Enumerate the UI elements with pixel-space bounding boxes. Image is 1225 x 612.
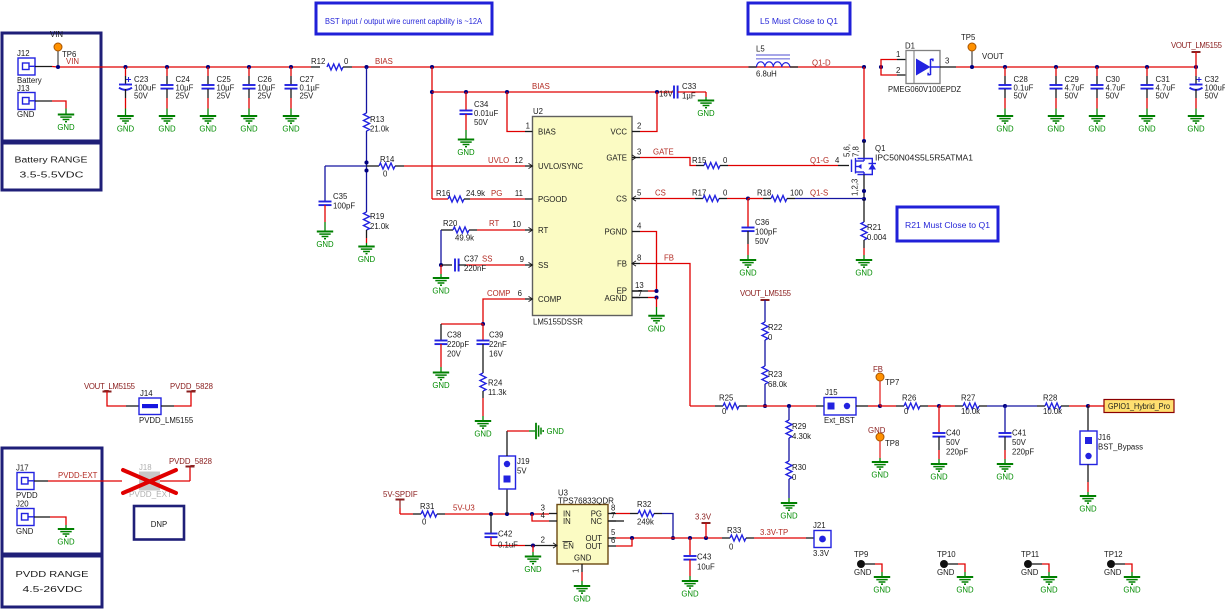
ground at C40 bbox=[930, 464, 948, 482]
svg-text:7,8: 7,8 bbox=[852, 146, 861, 157]
ground at R19 bbox=[358, 247, 376, 265]
ground at C31 bbox=[1138, 116, 1156, 134]
svg-text:C34: C34 bbox=[474, 100, 489, 109]
svg-text:R20: R20 bbox=[443, 219, 458, 228]
svg-text:J19: J19 bbox=[517, 457, 530, 466]
svg-text:5V: 5V bbox=[517, 467, 527, 476]
ground at R21 bbox=[855, 260, 873, 278]
svg-text:GND: GND bbox=[780, 512, 798, 521]
svg-text:GND: GND bbox=[873, 586, 891, 595]
svg-text:GND: GND bbox=[855, 269, 873, 278]
svg-text:PGOOD: PGOOD bbox=[538, 195, 567, 204]
svg-text:D1: D1 bbox=[905, 42, 915, 51]
svg-text:GND: GND bbox=[240, 125, 258, 134]
svg-text:10.0k: 10.0k bbox=[961, 407, 980, 416]
capacitor C33 bbox=[659, 82, 706, 101]
wire J12 to VIN rail bbox=[35, 66, 58, 69]
note BST wire current capability bbox=[316, 3, 492, 34]
svg-text:GATE: GATE bbox=[606, 154, 627, 163]
wire R19 to ground bbox=[366, 230, 368, 246]
svg-text:GND: GND bbox=[937, 568, 955, 577]
resistor R21 bbox=[861, 199, 887, 242]
svg-text:50V: 50V bbox=[946, 438, 961, 447]
svg-text:1: 1 bbox=[572, 569, 581, 573]
svg-text:VCC: VCC bbox=[611, 128, 628, 137]
capacitor C39 bbox=[477, 324, 508, 373]
battery input enclosure box bbox=[2, 33, 101, 141]
svg-text:16V: 16V bbox=[489, 350, 504, 359]
wire NC stub bbox=[608, 520, 624, 522]
svg-text:R28: R28 bbox=[1043, 394, 1057, 403]
wire EN node bbox=[525, 543, 549, 556]
svg-text:0: 0 bbox=[383, 170, 388, 179]
svg-text:PVDD_5828: PVDD_5828 bbox=[170, 382, 213, 391]
net flag GPIO1_Hybrid_Pro bbox=[1086, 400, 1174, 413]
wire J15 to TP7 node bbox=[856, 404, 896, 408]
transistor Q1 IPC50N04S5L5R5ATMA1 bbox=[835, 144, 973, 196]
svg-text:Ext_BST: Ext_BST bbox=[824, 416, 855, 425]
capacitor C29 bbox=[1050, 67, 1085, 116]
resistor R18 bbox=[746, 189, 804, 202]
power flag 3.3V bbox=[695, 513, 712, 539]
svg-text:R27: R27 bbox=[961, 394, 975, 403]
testpoint TP5 VOUT bbox=[961, 33, 1004, 67]
ground at AGND bbox=[648, 316, 666, 334]
resistor R29 bbox=[786, 406, 811, 441]
svg-text:0: 0 bbox=[723, 156, 728, 165]
ground at C25 bbox=[199, 116, 217, 134]
wire R22 to R23 bbox=[764, 340, 766, 366]
svg-text:6: 6 bbox=[611, 536, 615, 545]
svg-text:25V: 25V bbox=[217, 92, 232, 101]
svg-text:50V: 50V bbox=[474, 118, 489, 127]
svg-text:GND: GND bbox=[474, 430, 492, 439]
svg-text:R21 Must Close to Q1: R21 Must Close to Q1 bbox=[905, 221, 990, 230]
power flag PVDD_5828 at J18 bbox=[169, 457, 212, 481]
ground at C35 bbox=[316, 232, 334, 250]
svg-text:C41: C41 bbox=[1012, 429, 1026, 438]
svg-text:FB: FB bbox=[617, 260, 627, 269]
svg-text:4: 4 bbox=[637, 222, 642, 231]
svg-text:GND: GND bbox=[648, 324, 666, 333]
resistor R17 bbox=[692, 189, 748, 202]
svg-text:TPS76833QDR: TPS76833QDR bbox=[558, 497, 614, 506]
svg-text:Q1-G: Q1-G bbox=[810, 156, 829, 165]
resistor R15 bbox=[692, 156, 728, 169]
svg-text:8: 8 bbox=[637, 254, 641, 263]
svg-text:LM5155DSSR: LM5155DSSR bbox=[533, 318, 583, 327]
DNP note box bbox=[134, 506, 184, 540]
svg-text:GND: GND bbox=[956, 586, 974, 595]
wire R25 to J15 bbox=[765, 404, 824, 408]
svg-text:220nF: 220nF bbox=[464, 264, 486, 273]
svg-text:CS: CS bbox=[616, 195, 627, 204]
svg-text:PG: PG bbox=[491, 189, 502, 198]
svg-text:1: 1 bbox=[896, 50, 900, 59]
svg-text:VIN: VIN bbox=[50, 30, 63, 39]
svg-text:R25: R25 bbox=[719, 394, 734, 403]
ground at R30 bbox=[780, 503, 798, 521]
U2 pin stubs and numbers bbox=[512, 122, 643, 302]
svg-text:AGND: AGND bbox=[604, 294, 627, 303]
svg-text:PGND: PGND bbox=[604, 228, 627, 237]
wire divider mid node bbox=[325, 131, 369, 212]
svg-text:68.0k: 68.0k bbox=[768, 380, 787, 389]
svg-text:VOUT_LM5155: VOUT_LM5155 bbox=[84, 382, 136, 391]
svg-text:GND: GND bbox=[1021, 568, 1039, 577]
svg-text:J17: J17 bbox=[16, 464, 29, 473]
wire EP AGND junctions bbox=[632, 289, 659, 316]
svg-text:GND: GND bbox=[524, 565, 542, 574]
svg-text:J12: J12 bbox=[17, 49, 30, 58]
resistor R14 bbox=[367, 155, 405, 179]
ground at J13 bbox=[57, 115, 75, 133]
wire R23 to FB rail bbox=[763, 384, 767, 408]
connector J13 bbox=[17, 84, 35, 119]
svg-text:50V: 50V bbox=[1106, 92, 1121, 101]
resistor R32 bbox=[616, 500, 662, 527]
capacitor C36 bbox=[742, 199, 778, 260]
svg-text:GND: GND bbox=[930, 473, 948, 482]
resistor R31 bbox=[400, 502, 445, 527]
svg-text:50V: 50V bbox=[1205, 92, 1220, 101]
svg-text:J14: J14 bbox=[140, 389, 153, 398]
svg-text:R21: R21 bbox=[867, 223, 881, 232]
svg-text:GND: GND bbox=[1047, 125, 1065, 134]
svg-text:GND: GND bbox=[117, 125, 135, 134]
testpoint TP12 bbox=[1104, 550, 1132, 577]
testpoint TP11 bbox=[1021, 550, 1049, 577]
svg-text:3.5-5.5VDC: 3.5-5.5VDC bbox=[20, 171, 85, 180]
svg-text:GND: GND bbox=[1187, 125, 1205, 134]
svg-text:J20: J20 bbox=[16, 500, 29, 509]
svg-text:GND: GND bbox=[697, 109, 715, 118]
testpoint TP10 bbox=[937, 550, 965, 577]
testpoint TP9 bbox=[854, 550, 882, 577]
svg-text:50V: 50V bbox=[1065, 92, 1080, 101]
svg-text:100pF: 100pF bbox=[755, 228, 777, 237]
power flag VOUT_LM5155 top bbox=[1171, 41, 1223, 67]
ground at TP10 bbox=[956, 577, 974, 595]
svg-text:100pF: 100pF bbox=[333, 202, 355, 211]
capacitor C40 bbox=[933, 404, 969, 464]
ground at TP8 bbox=[871, 458, 889, 480]
svg-text:R17: R17 bbox=[692, 189, 706, 198]
svg-text:GND: GND bbox=[17, 110, 35, 119]
svg-text:TP8: TP8 bbox=[885, 439, 899, 448]
svg-text:VIN: VIN bbox=[66, 57, 79, 66]
ground at EN bbox=[524, 557, 542, 575]
ground sideways at J19 bbox=[536, 423, 564, 439]
svg-text:0: 0 bbox=[723, 189, 728, 198]
ground at C24 bbox=[158, 116, 176, 134]
svg-text:50V: 50V bbox=[1156, 92, 1171, 101]
resistor R19 bbox=[364, 212, 390, 231]
wire GATE net bbox=[640, 158, 696, 166]
svg-text:NC: NC bbox=[591, 517, 603, 526]
resistor R22 bbox=[762, 322, 782, 342]
capacitor C42 bbox=[485, 514, 526, 550]
svg-text:R32: R32 bbox=[637, 500, 651, 509]
svg-text:R16: R16 bbox=[436, 189, 450, 198]
power flag VOUT_LM5155 mid bbox=[740, 289, 792, 322]
svg-text:OUT: OUT bbox=[586, 542, 603, 551]
svg-text:C42: C42 bbox=[498, 530, 512, 539]
svg-text:0: 0 bbox=[904, 407, 909, 416]
svg-text:1µF: 1µF bbox=[682, 92, 696, 101]
svg-text:UVLO: UVLO bbox=[488, 156, 509, 165]
svg-text:21.0k: 21.0k bbox=[370, 125, 389, 134]
svg-text:SS: SS bbox=[482, 255, 492, 264]
wire PGND to ground node bbox=[640, 232, 657, 292]
resistor R25 bbox=[715, 394, 765, 417]
svg-text:49.9k: 49.9k bbox=[455, 234, 474, 243]
ground at TP11 bbox=[1040, 577, 1058, 595]
svg-text:R18: R18 bbox=[757, 189, 771, 198]
battery range label box bbox=[2, 143, 101, 190]
svg-text:GND: GND bbox=[681, 590, 699, 599]
wire 5V-U3 rail bbox=[445, 512, 549, 516]
svg-text:GND: GND bbox=[1138, 125, 1156, 134]
wire BIAS rail top bbox=[352, 65, 864, 69]
svg-text:3: 3 bbox=[637, 148, 641, 157]
svg-text:C38: C38 bbox=[447, 331, 461, 340]
svg-text:BIAS: BIAS bbox=[538, 128, 556, 137]
svg-text:C39: C39 bbox=[489, 331, 503, 340]
svg-text:GND: GND bbox=[1104, 568, 1122, 577]
svg-text:R22: R22 bbox=[768, 323, 782, 332]
connector J12 bbox=[17, 49, 42, 85]
connector J16 BST_Bypass bbox=[1080, 406, 1143, 465]
svg-text:L5 Must Close to Q1: L5 Must Close to Q1 bbox=[760, 17, 838, 26]
ground at TP9 bbox=[873, 577, 891, 595]
svg-text:GND: GND bbox=[57, 538, 75, 547]
svg-text:GND: GND bbox=[432, 287, 450, 296]
svg-text:2: 2 bbox=[541, 536, 545, 545]
wire BIAS branch down to PGOOD row bbox=[430, 67, 434, 199]
ground at TP12 bbox=[1123, 577, 1141, 595]
svg-text:IPC50N04S5L5R5ATMA1: IPC50N04S5L5R5ATMA1 bbox=[875, 154, 973, 163]
svg-text:0: 0 bbox=[729, 543, 734, 552]
wire R24 to ground bbox=[482, 398, 484, 421]
DNP cross over J18 bbox=[123, 470, 176, 493]
svg-text:DNP: DNP bbox=[151, 520, 167, 529]
svg-text:5V-SPDIF: 5V-SPDIF bbox=[383, 490, 418, 499]
power flag VOUT_LM5155 left bbox=[84, 382, 136, 406]
resistor R28 bbox=[1005, 394, 1088, 417]
svg-text:GND: GND bbox=[158, 125, 176, 134]
resistor R33 bbox=[722, 526, 806, 552]
testpoint TP6 VIN bbox=[50, 30, 76, 67]
svg-text:GND: GND bbox=[574, 554, 592, 563]
svg-text:GND: GND bbox=[739, 269, 757, 278]
svg-text:J15: J15 bbox=[825, 388, 838, 397]
svg-text:2: 2 bbox=[896, 66, 900, 75]
svg-text:TP9: TP9 bbox=[854, 550, 868, 559]
svg-text:U2: U2 bbox=[533, 107, 543, 116]
ground at C34 bbox=[457, 140, 475, 158]
testpoint TP8 GND bbox=[868, 426, 899, 458]
svg-text:Q1-S: Q1-S bbox=[810, 189, 828, 198]
power flag 5V-SPDIF bbox=[383, 490, 418, 514]
svg-text:VOUT_LM5155: VOUT_LM5155 bbox=[740, 289, 792, 298]
capacitor C37 bbox=[441, 255, 525, 274]
svg-text:PMEG060V100EPDZ: PMEG060V100EPDZ bbox=[888, 85, 961, 94]
svg-text:Q1: Q1 bbox=[875, 144, 885, 153]
wire R21 to ground bbox=[863, 240, 865, 260]
note R21 must close to Q1 bbox=[897, 207, 998, 241]
svg-text:50V: 50V bbox=[1014, 92, 1029, 101]
svg-text:10uF: 10uF bbox=[697, 563, 715, 572]
svg-text:GND: GND bbox=[1040, 586, 1058, 595]
svg-text:C37: C37 bbox=[464, 255, 478, 264]
svg-text:R14: R14 bbox=[380, 155, 395, 164]
svg-text:0: 0 bbox=[768, 333, 773, 342]
svg-text:4: 4 bbox=[541, 511, 546, 520]
capacitor C27 bbox=[285, 67, 320, 116]
ground at C38 bbox=[432, 373, 450, 391]
svg-text:PVDD_LM5155: PVDD_LM5155 bbox=[139, 416, 194, 425]
ground at C41 bbox=[996, 464, 1014, 482]
svg-text:R13: R13 bbox=[370, 115, 384, 124]
connector J15 Ext_BST bbox=[824, 388, 856, 425]
U2 pin names bbox=[538, 128, 627, 305]
connector J20 bbox=[16, 500, 34, 537]
svg-text:PVDD_5828: PVDD_5828 bbox=[169, 457, 212, 466]
ground at SS node bbox=[432, 265, 450, 296]
svg-text:COMP: COMP bbox=[538, 295, 561, 304]
svg-text:GND: GND bbox=[57, 123, 75, 132]
svg-text:0: 0 bbox=[422, 518, 427, 527]
svg-text:GATE: GATE bbox=[653, 148, 674, 157]
svg-text:21.0k: 21.0k bbox=[370, 222, 389, 231]
PVDD range label box bbox=[2, 556, 102, 607]
wire VCC to BIAS subrail bbox=[640, 92, 657, 132]
ground at C36 bbox=[739, 260, 757, 278]
ground at C27 bbox=[282, 116, 300, 134]
capacitor C25 bbox=[202, 67, 235, 116]
svg-text:VOUT_LM5155: VOUT_LM5155 bbox=[1171, 41, 1223, 50]
svg-text:1,2,3: 1,2,3 bbox=[851, 179, 860, 196]
capacitor C30 bbox=[1091, 67, 1126, 116]
svg-text:GND: GND bbox=[996, 125, 1014, 134]
svg-text:20V: 20V bbox=[447, 350, 462, 359]
ground at R24 bbox=[474, 421, 492, 439]
wire Q1-S net bbox=[795, 198, 864, 200]
svg-text:GND: GND bbox=[1079, 505, 1097, 514]
wire BIAS subrail bbox=[432, 90, 674, 94]
svg-text:GND: GND bbox=[457, 148, 475, 157]
capacitor C32 bbox=[1190, 67, 1225, 116]
svg-text:TP10: TP10 bbox=[937, 550, 956, 559]
power flag PVDD_5828 at J14 bbox=[170, 382, 213, 406]
svg-text:6: 6 bbox=[518, 289, 522, 298]
connector J19 5V bbox=[499, 456, 530, 514]
svg-text:R12: R12 bbox=[311, 57, 325, 66]
svg-text:C43: C43 bbox=[697, 553, 711, 562]
svg-text:3.3V-TP: 3.3V-TP bbox=[760, 528, 788, 537]
resistor R27 bbox=[939, 394, 1005, 417]
svg-text:TP11: TP11 bbox=[1021, 550, 1039, 559]
svg-text:0.004: 0.004 bbox=[867, 233, 887, 242]
svg-text:12: 12 bbox=[514, 156, 523, 165]
wire R32 to OUT rail bbox=[662, 514, 675, 541]
wire Q1 drain junction bbox=[862, 65, 866, 159]
svg-text:11.3k: 11.3k bbox=[488, 388, 507, 397]
svg-text:COMP: COMP bbox=[487, 289, 510, 298]
svg-text:3.3V: 3.3V bbox=[813, 549, 830, 558]
wire VIN rail bbox=[56, 65, 311, 69]
svg-text:3: 3 bbox=[945, 57, 949, 66]
svg-text:GND: GND bbox=[868, 426, 886, 435]
ground at C30 bbox=[1088, 116, 1106, 134]
wire J16 to ground bbox=[1087, 465, 1089, 497]
testpoint TP7 FB bbox=[873, 365, 899, 406]
svg-text:C36: C36 bbox=[755, 218, 769, 227]
svg-text:R33: R33 bbox=[727, 526, 741, 535]
wire J19 to horizontal ground bbox=[507, 431, 535, 456]
svg-text:10: 10 bbox=[512, 220, 521, 229]
svg-text:PVDD RANGE: PVDD RANGE bbox=[16, 570, 89, 579]
capacitor C23 bbox=[119, 67, 156, 116]
svg-text:220pF: 220pF bbox=[1012, 448, 1034, 457]
svg-text:4.5-26VDC: 4.5-26VDC bbox=[23, 585, 84, 594]
wire BIAS to pin 1 bbox=[507, 92, 525, 132]
connector J21 3.3V bbox=[806, 521, 831, 558]
svg-text:GND: GND bbox=[871, 471, 889, 480]
svg-text:C35: C35 bbox=[333, 192, 348, 201]
svg-text:25V: 25V bbox=[300, 92, 315, 101]
svg-text:GND: GND bbox=[573, 595, 591, 604]
wire pin4 feed bbox=[532, 514, 549, 521]
svg-text:R30: R30 bbox=[792, 463, 807, 472]
svg-text:GND: GND bbox=[16, 527, 34, 536]
resistor R12 bbox=[311, 57, 352, 70]
capacitor C43 bbox=[684, 538, 716, 581]
svg-text:GPIO1_Hybrid_Pro: GPIO1_Hybrid_Pro bbox=[1108, 402, 1171, 411]
svg-text:5V-U3: 5V-U3 bbox=[453, 504, 475, 513]
U3 ground pin 1 bbox=[572, 564, 583, 586]
wire CS net bbox=[640, 198, 695, 200]
ground at C26 bbox=[240, 116, 258, 134]
wire J20 to ground bbox=[34, 517, 66, 529]
capacitor C31 bbox=[1141, 67, 1176, 116]
svg-text:RT: RT bbox=[489, 219, 499, 228]
svg-text:220pF: 220pF bbox=[946, 448, 968, 457]
connector J17 bbox=[16, 464, 38, 501]
wire BIAS to R13 divider bbox=[366, 67, 368, 113]
wire FB rail bbox=[690, 405, 715, 407]
resistor R20 bbox=[441, 219, 525, 243]
note L5 must close to Q1 bbox=[748, 3, 850, 34]
svg-text:Battery RANGE: Battery RANGE bbox=[15, 156, 88, 165]
PVDD input enclosure box bbox=[2, 448, 102, 554]
svg-text:R26: R26 bbox=[902, 394, 916, 403]
svg-text:BIAS: BIAS bbox=[532, 82, 550, 91]
svg-text:BIAS: BIAS bbox=[375, 57, 393, 66]
svg-text:22nF: 22nF bbox=[489, 340, 507, 349]
svg-text:PVDD-EXT: PVDD-EXT bbox=[58, 471, 98, 480]
svg-text:RT: RT bbox=[538, 226, 548, 235]
svg-text:9: 9 bbox=[520, 255, 524, 264]
svg-text:5,6,: 5,6, bbox=[843, 144, 852, 157]
svg-text:GND: GND bbox=[1123, 586, 1141, 595]
svg-text:50V: 50V bbox=[755, 237, 770, 246]
svg-text:4: 4 bbox=[835, 156, 840, 165]
svg-text:FB: FB bbox=[664, 254, 674, 263]
wire VOUT rail bbox=[956, 65, 1198, 69]
svg-text:24.9k: 24.9k bbox=[466, 189, 485, 198]
